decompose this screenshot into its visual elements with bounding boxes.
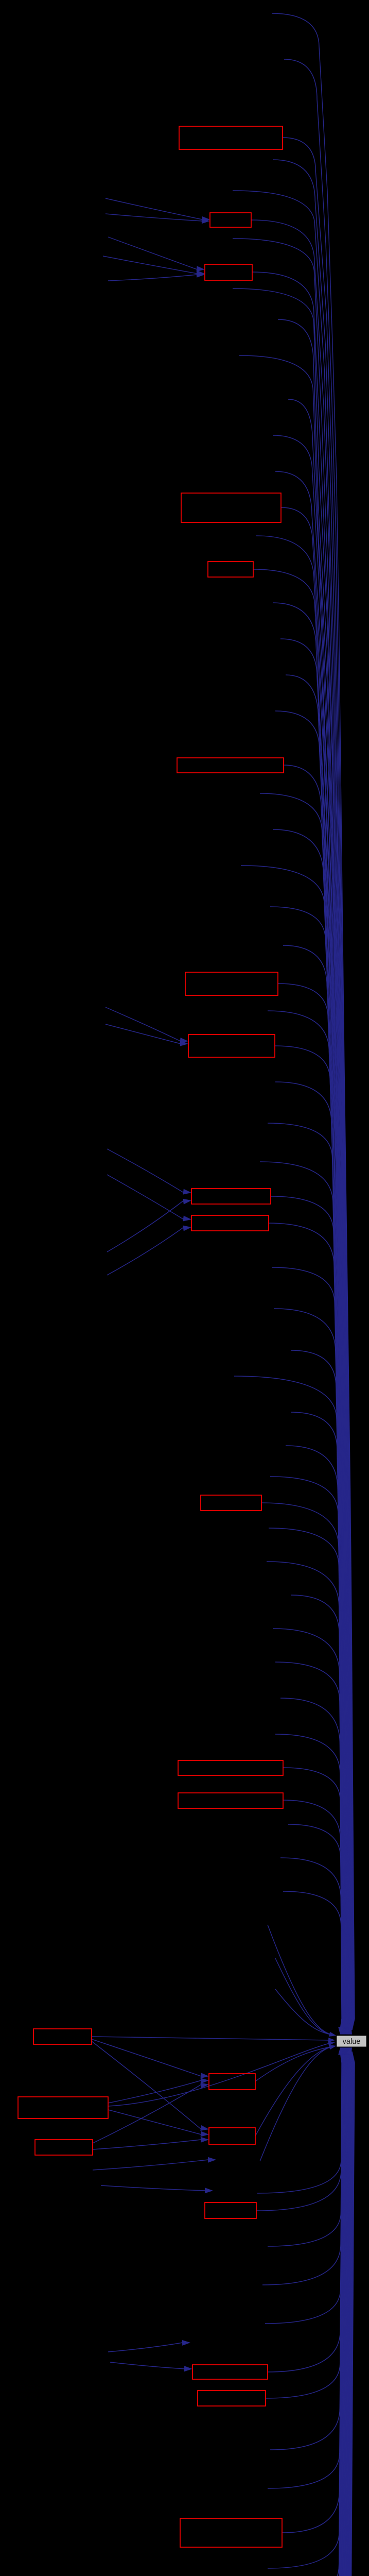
wire edge y5210 [273, 2052, 345, 2576]
wire edge y7758 [278, 2052, 354, 2576]
wire edge y26 [272, 13, 355, 2030]
wire 2nd-level (200,497)->(398,531) [103, 256, 197, 274]
wire edge y2806 [286, 1446, 345, 2030]
wire 2nd-level (210,4095)->(406,4143) [108, 2110, 201, 2134]
wire edge y1040 [256, 536, 351, 2030]
node B9 (caller) [191, 1189, 271, 1204]
node B11 (caller) [201, 1495, 261, 1511]
wire edge y2255 [260, 1162, 347, 2030]
wire 2nd-level (178,3958)->(406,4030) [92, 2039, 201, 2076]
wire edge y3226 [275, 1662, 343, 2030]
node B8 (caller) [188, 1035, 275, 1057]
wire edge y3736 direct [268, 1925, 333, 2035]
wire edge y1962 [268, 1011, 348, 2030]
wire 2nd-level (214,4585)->(374,4598) [110, 2362, 185, 2369]
node B13 (caller) [178, 1793, 283, 1808]
wire 2nd-level (208,2280)->(372,2367) [107, 1175, 184, 1219]
wire 2nd-level (208,2230)->(372,2315) [107, 1149, 184, 1193]
wire edge y2030 [275, 1046, 348, 2030]
wire edge y1310 [286, 675, 350, 2030]
wire edge y4040 direct [255, 2046, 333, 2081]
wire edge y310 [273, 160, 354, 2030]
wire edge y7400 [278, 2052, 353, 2576]
wire edge y6667 [280, 2052, 350, 2576]
wire edge y985 [281, 507, 352, 2030]
wire edge y6137 [275, 2052, 348, 2576]
wire edge y4655 [266, 2052, 343, 2398]
wire edge y5873 [255, 2052, 347, 2576]
wire edge y2540 [274, 1309, 346, 2030]
wire edge y2917 [261, 1503, 345, 2030]
wire edge y115 [284, 59, 355, 2030]
wire edge y3296 [280, 1698, 343, 2030]
wire 2nd-level (208,2430)->(372,2330) [107, 1200, 184, 1252]
node BA (caller) [209, 2074, 255, 2090]
wire edge y775 [288, 399, 352, 2030]
wire edge y6969 [286, 2052, 351, 2576]
wire edge y1170 [273, 603, 350, 2030]
node B3 (caller) [205, 264, 252, 280]
node B10 (caller) [191, 1215, 269, 1231]
wire edge y4435 [262, 2052, 342, 2285]
wire edge box15->value [108, 2043, 329, 2106]
wire edge y3494 [283, 1800, 342, 2030]
wire edge y5630 [279, 2052, 346, 2576]
wire 2nd-level (205,1955)->(366,2021) [106, 1007, 181, 1041]
wire edge y5942 [273, 2052, 347, 2576]
node BE (caller) [198, 2391, 266, 2406]
wire edge y2374 [269, 1223, 346, 2030]
wire edge y3541 [288, 1824, 342, 2030]
wire 2nd-level (180,4212)->(420,4192) [93, 2160, 208, 2170]
wire edge y3801 direct [275, 1958, 333, 2035]
wire edge y5060 [270, 2052, 344, 2576]
wire edge y6342 [273, 2052, 349, 2576]
wire edge y2180 [268, 1123, 347, 2030]
wire edge y1380 [275, 711, 350, 2030]
wire edge y1760 [270, 907, 348, 2030]
wire 2nd-level (205,415)->(408,429) [106, 214, 202, 221]
wire edge y3861 direct [275, 1989, 333, 2035]
wire edge y5370 [278, 2052, 345, 2576]
wire edge y7260 [278, 2052, 352, 2576]
wire edge y4360 [268, 2052, 342, 2246]
wire 2nd-level (210,545)->(398,533) [108, 275, 197, 281]
node B4 (caller) [181, 493, 281, 522]
wire edge y6886 [287, 2052, 351, 2576]
wire edge y5810 [268, 2052, 347, 2576]
wire edge y620 [278, 319, 353, 2030]
wire 2nd-level (205,1988)->(366,2026) [106, 1024, 181, 1044]
wire 2nd-level (208,2475)->(372,2382) [107, 1227, 184, 1275]
wire 2nd-level (180,4172)->(406,4153) [93, 2140, 201, 2149]
wire edge y5290 [275, 2052, 345, 2576]
wire edge y5432 [275, 2052, 346, 2576]
wire edge y2966 [269, 1528, 344, 2030]
wire edge y2322 [271, 1196, 347, 2030]
wire edge y3431 [283, 1768, 343, 2030]
wire edge y6277 [261, 2052, 349, 2576]
wire 2nd-level (178,3962)->(406,4133) [92, 2041, 201, 2129]
node BF (caller) [180, 2518, 282, 2547]
wire edge y3031 [267, 1562, 344, 2030]
wire edge y3606 [280, 1858, 342, 2030]
wire edge y915 [275, 471, 352, 2030]
wire edge y6818 [292, 2052, 351, 2576]
node BC (caller) [205, 2202, 256, 2218]
wire edge y4195 direct [260, 2046, 333, 2161]
wire edge y6007 [278, 2052, 348, 2576]
wire edge y4257 [257, 2052, 342, 2193]
wire edge y7678 [311, 2052, 354, 2576]
wire edge y7188 [288, 2052, 352, 2576]
node B2 (caller) [210, 213, 251, 227]
wire 2nd-level (205,385)->(408,426) [106, 198, 202, 219]
wire edge y1240 [280, 639, 350, 2030]
node B6 (caller) [177, 758, 284, 773]
wire edge y1835 [283, 945, 348, 2030]
wire edge y690 [239, 355, 352, 2030]
wire edge y1610 [273, 829, 349, 2030]
node value (central) [337, 2036, 366, 2047]
wire edge y7540 [273, 2052, 353, 2576]
wire edge y1540 [260, 793, 349, 2030]
wire edge y4291 [256, 2052, 342, 2211]
wire edge y5562 [278, 2052, 346, 2576]
wire edge y845 [273, 435, 352, 2030]
wire 2nd-level (196,4242)->(414,4252) [101, 2185, 205, 2191]
wire edge y1909 [278, 984, 348, 2030]
wire edge y4985 [268, 2052, 344, 2568]
wire edge y1105 [253, 569, 351, 2030]
wire edge y1680 [241, 866, 349, 2030]
wire edge y2460 [272, 1267, 346, 2030]
wire edge y3366 [275, 1734, 343, 2030]
wire edge y6407 [275, 2052, 349, 2576]
wire edge y1485 [284, 765, 349, 2030]
node BB (caller) [209, 2128, 255, 2144]
wire edge y7044 [298, 2052, 352, 2576]
wire edge y3161 [273, 1629, 344, 2030]
wire edge y4146 direct [255, 2046, 333, 2136]
wire edge y3671 [283, 1891, 342, 2030]
wire edge y2671 [234, 1376, 345, 2030]
wire edge y2621 [291, 1350, 346, 2030]
wire edge y2100 [275, 1082, 347, 2030]
wire edge y4604 [268, 2052, 343, 2372]
wire edge y6537 [275, 2052, 350, 2576]
node B12 (caller) [178, 1760, 283, 1775]
wire 2nd-level (210,460)->(398,523) [108, 237, 197, 269]
node B16 (caller) [35, 2140, 93, 2155]
wire edge y6602 [278, 2052, 350, 2576]
wire edge y6207 [270, 2052, 348, 2576]
wire edge y3096 [291, 1595, 344, 2030]
wire edge y7610 [275, 2052, 354, 2576]
wire edge y7330 [275, 2052, 353, 2576]
node B1 (caller) [179, 126, 283, 149]
wire edge y560 [233, 289, 353, 2030]
wire edge y4830 [268, 2052, 344, 2488]
wire edge y5135 [273, 2052, 345, 2576]
node B15 (caller) [18, 2097, 108, 2119]
wire edge y267 [283, 138, 354, 2030]
wire edge y5682 [273, 2052, 346, 2576]
wire edge y370 [233, 191, 354, 2030]
wire edge y463 [233, 239, 353, 2030]
wire edge y427 [251, 220, 354, 2030]
node B14 (caller) [33, 2029, 92, 2044]
node B7 (caller) [185, 972, 278, 995]
node B5 (caller) [208, 562, 253, 577]
wire edge y7470 [275, 2052, 353, 2576]
wire 2nd-level (210,4082)->(406,4038) [108, 2080, 201, 2103]
svg-text:value: value [343, 2038, 361, 2046]
wire edge y7888 [278, 2052, 355, 2576]
wire edge y6732 [278, 2052, 350, 2576]
wire edge y4916 [282, 2052, 344, 2533]
wire edge y5748 [273, 2052, 347, 2576]
wire edge y6472 [273, 2052, 349, 2576]
wire 2nd-level (210,4565)->(370,4547) [108, 2343, 183, 2352]
wire 2nd-level (180,4160)->(406,4046) [93, 2084, 201, 2143]
wire edge y2741 [291, 1412, 345, 2030]
wire edge y7823 [278, 2052, 354, 2576]
wire edge y4755 [270, 2052, 343, 2450]
wire edge y7116 [282, 2052, 352, 2576]
wire edge y2866 [270, 1477, 345, 2030]
wire edge y6072 [273, 2052, 348, 2576]
wire edge y528 [252, 272, 353, 2030]
wire edge y5497 [273, 2052, 346, 2576]
wire edge y7943 [275, 2052, 355, 2576]
wire edge box14->value [92, 2037, 329, 2040]
wire edge y4510 [265, 2052, 343, 2324]
node BD (caller) [192, 2365, 268, 2379]
